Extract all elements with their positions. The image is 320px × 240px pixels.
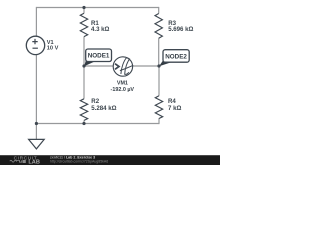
voltage source V1 xyxy=(26,36,44,54)
footer bar xyxy=(0,155,220,165)
CircuitLab logo xyxy=(10,156,40,166)
ground xyxy=(29,139,45,149)
label R4 xyxy=(168,98,181,112)
wire NODE1 to R2 top xyxy=(83,66,85,99)
wire R1 top stub xyxy=(83,8,85,14)
wire bottom rail xyxy=(36,123,159,125)
wire R1 bottom to NODE1 xyxy=(83,37,85,66)
voltmeter VM1 xyxy=(113,57,133,76)
wire top rail xyxy=(36,7,158,9)
svg-text:VM1: VM1 xyxy=(117,81,128,87)
svg-text:http://circuitlab.com/c/72SpAu: http://circuitlab.com/c/72SpAug85kA6 xyxy=(50,159,108,163)
node flag NODE2 xyxy=(159,50,189,67)
resistor R2 xyxy=(80,99,87,121)
wire middle left (NODE1 to VM1) xyxy=(84,65,113,67)
resistor R1 xyxy=(80,13,87,36)
svg-text:-192.0 µV: -192.0 µV xyxy=(111,87,135,93)
node flag NODE1 xyxy=(84,49,111,66)
junction dot NODE2 xyxy=(157,64,160,67)
wire R3 top stub xyxy=(158,7,160,14)
svg-text:LAB: LAB xyxy=(28,159,40,165)
resistor R4 xyxy=(155,96,162,119)
label R2 xyxy=(91,98,116,112)
wire ground stub xyxy=(35,124,37,140)
svg-text:10 V: 10 V xyxy=(47,46,59,52)
wire left rail upper xyxy=(35,7,37,36)
wire R4 bottom stub xyxy=(158,118,160,124)
svg-text:5.696 kΩ: 5.696 kΩ xyxy=(168,26,193,33)
wire middle right (VM1 to NODE2) xyxy=(133,65,160,67)
svg-text:5.284 kΩ: 5.284 kΩ xyxy=(91,105,116,112)
svg-text:NODE1: NODE1 xyxy=(88,53,110,60)
junction dot NODE1 xyxy=(82,64,85,67)
junction dot R2 bottom xyxy=(82,122,85,125)
wire R2 bottom stub xyxy=(83,120,85,123)
junction dot ground tap xyxy=(35,122,38,125)
wire R3 bottom to NODE2 xyxy=(158,38,160,66)
label VM1 xyxy=(111,81,135,93)
label R3 xyxy=(168,20,193,33)
svg-text:NODE2: NODE2 xyxy=(165,53,187,60)
label R1 xyxy=(91,20,110,33)
resistor R3 xyxy=(155,14,162,39)
svg-text:4.3 kΩ: 4.3 kΩ xyxy=(91,26,110,33)
wire left rail lower xyxy=(35,55,37,124)
junction dot R1 top xyxy=(82,6,85,9)
label V1 value xyxy=(47,40,59,52)
svg-text:7 kΩ: 7 kΩ xyxy=(168,105,181,112)
wire NODE2 to R4 top xyxy=(158,66,160,96)
